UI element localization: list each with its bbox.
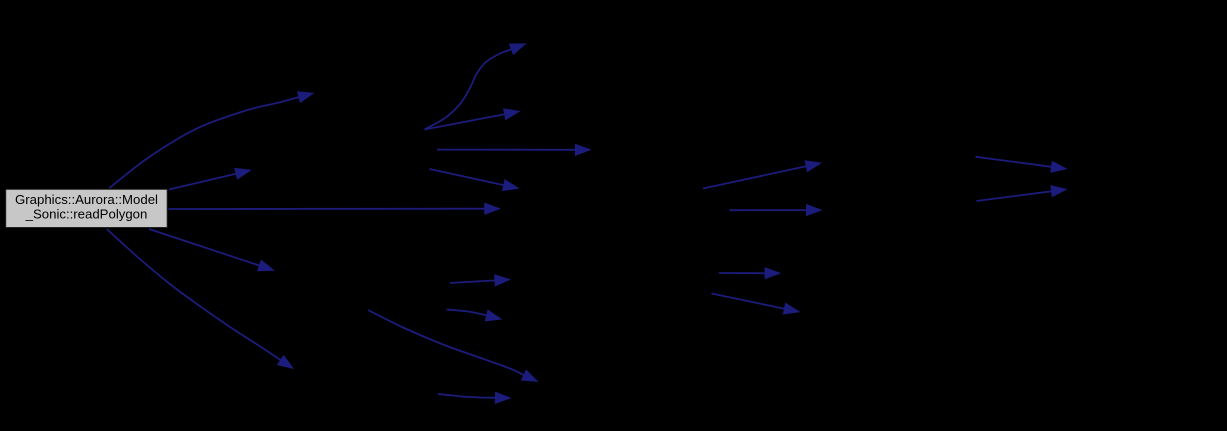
- edge readPolygon->callee1 (curve up): [110, 92, 314, 188]
- edge callee1->c6 (s-curve): [425, 44, 526, 130]
- svg-text:_Sonic::readPolygon: _Sonic::readPolygon: [25, 207, 148, 222]
- edge d3->d4 (horizontal): [719, 268, 780, 279]
- edge callee3->d1: [703, 161, 821, 189]
- edge callee3->d2 (horizontal): [730, 205, 822, 216]
- edge c13->c14 (long curve): [368, 310, 538, 382]
- svg-text:Graphics::Aurora::Model: Graphics::Aurora::Model: [15, 192, 158, 207]
- edge c10->c12: [447, 310, 502, 321]
- edge readPolygon->callee2: [169, 168, 251, 189]
- edge d2->e2: [977, 186, 1067, 201]
- edge readPolygon->callee4: [149, 229, 274, 271]
- edge readPolygon->callee5 (curve down): [107, 229, 294, 369]
- edge c15->c16: [438, 392, 511, 403]
- edge readPolygon->callee3 (horizontal): [169, 203, 500, 214]
- node box Graphics::Aurora::Model_Sonic::readPolygon: [6, 189, 168, 227]
- edge callee1->c7: [425, 109, 520, 130]
- edge d2->e1: [976, 157, 1067, 173]
- edge callee1->c8 (horizontal): [437, 144, 591, 155]
- edge callee1->c9: [430, 169, 519, 191]
- edge c10->c11: [450, 275, 510, 286]
- edge d3->d5: [712, 294, 800, 315]
